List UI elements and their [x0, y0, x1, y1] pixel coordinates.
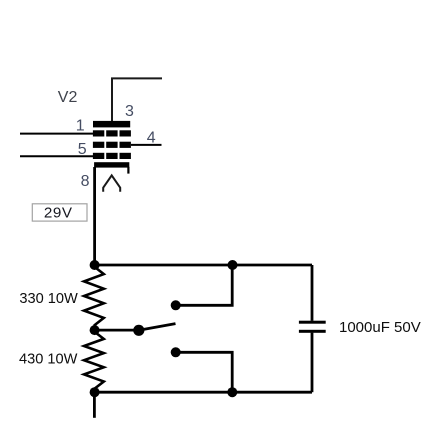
svg-text:3: 3 — [125, 103, 134, 120]
svg-text:8: 8 — [81, 173, 90, 190]
svg-text:1: 1 — [76, 117, 85, 134]
node E junction dot (bottom rail) — [227, 387, 237, 397]
wire: cathode/pin8 down to node A — [93, 167, 96, 265]
wire: top horizontal rail node A to capacitor — [95, 264, 312, 267]
switch SW1 throw 2 dot — [171, 347, 181, 357]
pin 1 wire — [20, 133, 93, 135]
wire: throw 2 to bottom rail — [176, 352, 233, 392]
wire: plate stub from pin 3 up and right — [112, 78, 162, 121]
wire: throw 1 to top rail — [176, 265, 233, 305]
wire: capacitor top lead — [311, 265, 314, 321]
switch SW1 pole dot — [133, 325, 144, 336]
tube V2 grid squares row 1 — [93, 130, 131, 136]
node B junction dot — [90, 325, 100, 335]
switch SW1 common wire from node B — [95, 329, 139, 332]
tube V2 grid squares row 2 — [93, 142, 131, 148]
svg-text:430 10W: 430 10W — [19, 352, 78, 368]
tube V2 grid squares row 3 — [93, 153, 131, 159]
tube V2 envelope bracket right leg — [127, 167, 129, 174]
pin 5 wire — [20, 155, 93, 157]
capacitor C1 plates — [299, 321, 326, 333]
switch SW1 lever — [139, 324, 176, 331]
wire: bottom horizontal rail — [95, 391, 312, 394]
resistor R1 zigzag — [84, 265, 104, 330]
node C junction dot — [90, 387, 100, 397]
voltage box 29V — [32, 204, 87, 222]
svg-text:330 10W: 330 10W — [19, 291, 78, 307]
svg-text:V2: V2 — [58, 89, 78, 106]
svg-text:29V: 29V — [44, 204, 73, 221]
switch SW1 throw 1 dot — [171, 300, 181, 310]
node D junction dot (top rail) — [228, 260, 238, 270]
node A junction dot — [90, 260, 100, 270]
wire: capacitor bottom lead — [311, 333, 314, 393]
svg-text:1000uF 50V: 1000uF 50V — [339, 319, 421, 336]
tube V2 cathode bar — [94, 162, 129, 167]
pin 4 wire — [131, 144, 162, 146]
tube V2 plate bar — [93, 121, 130, 128]
wire: bottom tail below node C — [93, 392, 96, 418]
resistor R2 zigzag — [84, 330, 104, 392]
heater chevron — [103, 175, 120, 191]
